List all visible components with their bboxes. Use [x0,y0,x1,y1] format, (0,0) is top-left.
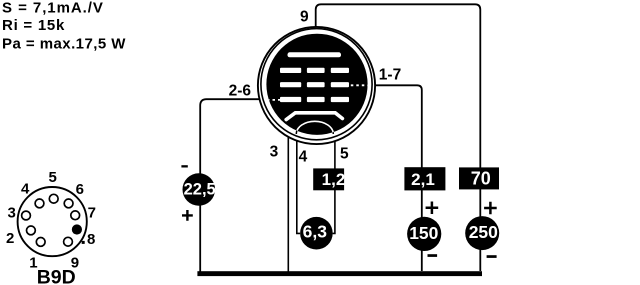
wire heater pin 4 to 6,3V [297,134,300,234]
current 70 box [459,167,499,189]
svg-text:Ri = 15k: Ri = 15k [2,17,65,34]
svg-text:6: 6 [76,181,84,198]
ground bus [197,271,482,276]
svg-text:2-6: 2-6 [229,82,252,99]
svg-text:1,2: 1,2 [322,170,346,189]
socket pin 5 [49,194,58,203]
svg-text:6,3: 6,3 [303,221,328,241]
svg-text:1-7: 1-7 [379,67,401,84]
grid g1 row [280,97,349,102]
svg-text:250: 250 [469,222,498,242]
svg-text:9: 9 [300,9,309,26]
heater dome outside arc [296,121,333,134]
battery 250 V [465,216,499,250]
heater supply 6,3 V [300,217,333,250]
socket pin 7 [71,211,80,220]
socket B9D outline [18,187,87,256]
tube envelope inner circle [261,29,372,140]
tube V1 envelope outer circle [258,27,375,144]
cathode hat [286,113,342,120]
current 2,1 box [404,167,445,190]
minus of battery 22,5 [181,165,187,167]
tube electrode disc [266,34,367,135]
plus of battery 250 [484,202,497,215]
wire anode pin 9 to HT+ top rail [316,4,481,271]
minus of battery 150 [428,254,438,257]
svg-text:150: 150 [409,223,438,243]
svg-text:2: 2 [6,230,14,247]
socket pin 1 [36,238,45,247]
socket pin 6 [64,199,73,208]
wire 2-6 dashes inside tube [267,99,281,101]
plus of battery 150 [426,202,439,215]
svg-text:7: 7 [88,205,96,222]
socket pin 2 [27,226,36,235]
current 1,2 A box [313,168,344,190]
svg-text:3: 3 [8,205,16,222]
svg-text:70: 70 [471,169,491,189]
socket pin 8 marker [72,224,82,234]
svg-text:4: 4 [21,180,30,197]
battery 150 V [407,217,441,251]
socket pin 3 [22,211,31,220]
svg-text:22,5: 22,5 [184,181,216,199]
grid g3 row [280,68,349,73]
svg-text:5: 5 [340,145,349,162]
plus of battery 22,5 [182,210,193,221]
wire 1-7 dashes inside tube [351,84,368,86]
battery 22,5 V [183,173,216,206]
anode plate bar [288,52,342,57]
heater dome inside arc [296,121,333,134]
svg-text:4: 4 [299,148,308,165]
socket index dot [82,241,85,244]
wire screen grid 1-7 to supply [368,85,422,271]
grid g2 row [280,82,349,87]
svg-text:2,1: 2,1 [411,170,435,189]
wire control grid 2-6 to bias battery 22,5 [200,99,266,273]
svg-text:3: 3 [270,144,279,161]
wire heater pin 5 through 1,2A to 6,3V [333,134,335,234]
wire cathode pin 3 to ground bus [287,123,289,273]
socket pin 9 [64,237,73,246]
minus of battery 250 [487,255,497,258]
svg-text:5: 5 [49,169,57,186]
socket pin 4 [35,199,44,208]
svg-text:B9D: B9D [37,266,76,285]
svg-text:S = 7,1mA./V: S = 7,1mA./V [2,0,104,17]
svg-text:Pa = max.17,5 W: Pa = max.17,5 W [2,36,126,53]
svg-text:8: 8 [87,231,95,248]
